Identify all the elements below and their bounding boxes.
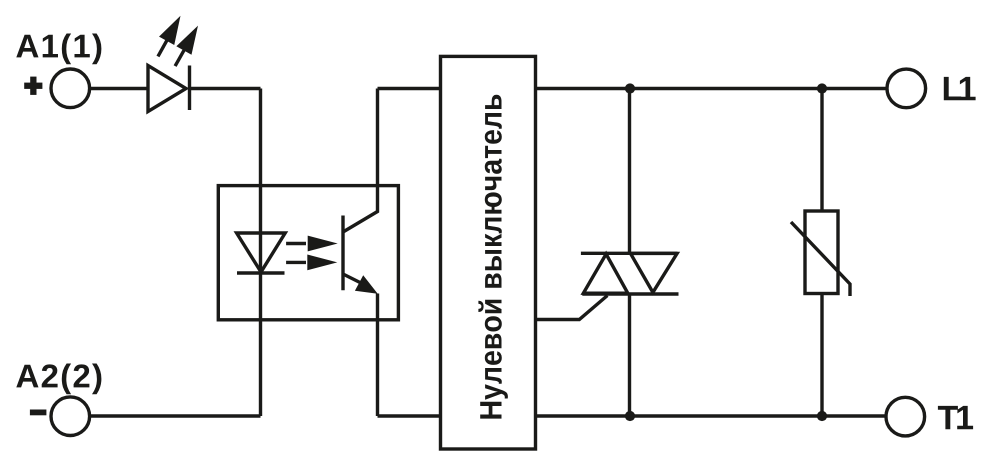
minus sign <box>30 410 47 416</box>
varistor R1 diagonal stroke <box>791 222 850 296</box>
optocoupler U1 box <box>218 186 398 320</box>
zero-cross switch box <box>441 56 536 449</box>
optocoupler LED cathode bar <box>237 271 285 274</box>
terminal T1 <box>886 397 925 436</box>
label L1 <box>944 77 976 100</box>
wire switch box to T1 <box>536 414 887 417</box>
wire input loop vertical <box>259 89 262 417</box>
optocoupler LED triangle <box>237 233 286 272</box>
label T1 <box>938 406 973 429</box>
terminal A1 <box>51 69 90 108</box>
triac Q1 top bar <box>581 252 678 255</box>
triac Q1 bottom bar <box>582 292 678 295</box>
LED D1 triangle <box>148 66 186 112</box>
wire triac branch vertical <box>628 89 631 254</box>
terminal L1 <box>887 69 926 108</box>
wire collector to switch box <box>378 87 441 90</box>
optocoupler light arrow 1 <box>286 236 338 252</box>
varistor R1 body <box>805 211 838 294</box>
node top triac junction <box>625 83 635 93</box>
phototransistor collector <box>343 89 378 233</box>
terminal A2 <box>51 397 90 436</box>
wire A1 to LED <box>90 87 149 90</box>
phototransistor base bar <box>341 216 344 291</box>
wire switch box to L1 <box>536 87 887 90</box>
wire varistor branch vertical <box>820 89 823 212</box>
label A2(2) <box>16 364 101 395</box>
wire A2 to corner <box>90 414 261 417</box>
node top varistor junction <box>817 83 827 93</box>
optocoupler light arrow 2 <box>286 255 337 271</box>
node bottom varistor junction <box>817 411 827 421</box>
LED D1 emission arrow 2 <box>168 21 206 70</box>
node bottom triac junction <box>625 411 635 421</box>
triac Q1 left triangle <box>583 254 627 293</box>
wire emitter to switch box <box>378 414 441 417</box>
LED D1 cathode bar <box>188 66 191 111</box>
label A1(1) <box>16 34 101 65</box>
wire LED to corner <box>190 87 261 90</box>
triac gate wire <box>536 296 608 320</box>
triac Q1 right triangle <box>631 253 678 292</box>
plus sign <box>24 77 42 95</box>
LED D1 emission arrow 1 <box>150 12 188 61</box>
zero-cross switch label <box>478 95 508 419</box>
phototransistor emitter <box>343 274 378 416</box>
